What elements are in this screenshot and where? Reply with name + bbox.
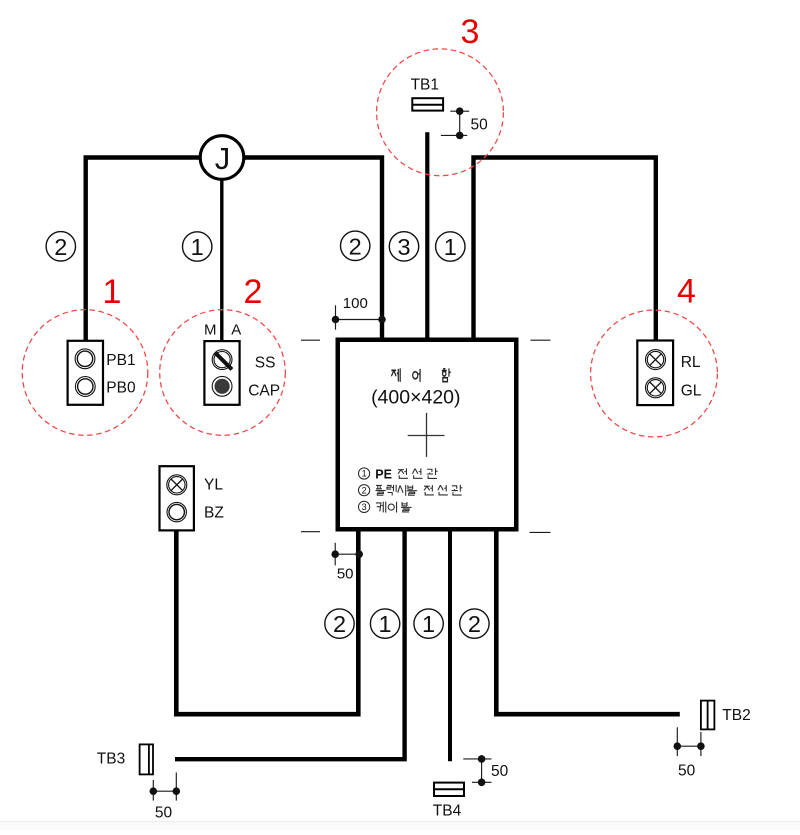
svg-text:50: 50 — [678, 763, 696, 780]
wire: J to PB station (left drop) and J to control box left conduit, label 2 — [86, 158, 382, 343]
svg-text:50: 50 — [337, 566, 354, 583]
dimension 50 (TB2 offset) — [674, 727, 705, 779]
svg-text:2: 2 — [362, 485, 367, 495]
svg-text:50: 50 — [471, 117, 489, 134]
svg-text:TB1: TB1 — [411, 77, 439, 94]
legend item 1: PE conduit — [359, 467, 438, 481]
pilot lamp RL — [646, 350, 666, 370]
svg-text:1: 1 — [379, 611, 392, 637]
conduit label 1 (RL/GL run) — [436, 232, 465, 261]
svg-text:2: 2 — [54, 234, 67, 260]
svg-text:1: 1 — [444, 234, 457, 260]
terminal block TB2 symbol — [701, 701, 715, 730]
svg-text:GL: GL — [681, 382, 702, 399]
svg-text:1: 1 — [191, 234, 204, 260]
junction box J — [200, 136, 244, 180]
svg-text:A: A — [231, 321, 241, 338]
svg-text:3: 3 — [362, 502, 367, 512]
wire: control box to TB2, label 2 — [496, 530, 680, 715]
terminal block TB4 symbol — [434, 783, 464, 796]
svg-text:50: 50 — [155, 805, 173, 822]
cable label 3 (TB1 run) — [389, 232, 418, 261]
push button PB1 — [75, 349, 95, 369]
detail circle 1 (PB station) — [22, 310, 148, 436]
dimension 50 (TB1 offset) — [441, 107, 488, 139]
terminal block TB3 symbol — [140, 744, 153, 774]
svg-text:(400×420): (400×420) — [371, 386, 460, 408]
svg-text:BZ: BZ — [204, 505, 224, 522]
svg-text:1: 1 — [362, 469, 367, 479]
wire: control box to TB3, label 1 — [175, 530, 405, 760]
svg-text:TB3: TB3 — [97, 750, 125, 767]
conduit label 2 (TB2 run) — [460, 609, 489, 638]
svg-text:TB2: TB2 — [722, 707, 750, 724]
conduit label 2 (YL/BZ run) — [325, 609, 354, 638]
corner tick top-left — [301, 339, 320, 341]
svg-text:100: 100 — [343, 295, 368, 312]
conduit label 2 (left PB run) — [46, 232, 75, 261]
control box center cross — [408, 413, 445, 457]
wire: TB1 cable drop to control box, label 3 — [425, 132, 429, 340]
dimension 100 (box top-left) — [332, 295, 386, 330]
svg-text:PB0: PB0 — [106, 379, 136, 396]
wire: control box down toward TB4, label 1 — [448, 530, 452, 762]
conduit label 2 (box left run) — [341, 231, 370, 260]
buzzer BZ — [167, 502, 186, 521]
pilot lamp YL — [167, 475, 187, 495]
svg-text:PB1: PB1 — [106, 352, 135, 369]
corner tick bottom-right — [530, 531, 551, 533]
push-button station PB1/PB0 box — [68, 341, 103, 405]
legend item 2: flexible conduit — [359, 485, 463, 496]
wire: control box to YL/BZ station, label 2 — [176, 530, 358, 715]
selector switch SS — [212, 350, 232, 370]
dimension 50 (TB4 offset) — [463, 755, 508, 786]
page footer strip — [0, 822, 800, 830]
svg-text:PE: PE — [375, 467, 392, 481]
svg-text:TB4: TB4 — [433, 802, 462, 819]
terminal block TB1 symbol — [412, 98, 443, 110]
control box 제어함 (400x420) outline — [338, 340, 517, 530]
svg-text:1: 1 — [103, 273, 122, 311]
svg-text:SS: SS — [255, 354, 276, 371]
detail circle 3 (TB1) — [377, 49, 504, 176]
detail circle 2 (SS/CAP station) — [160, 310, 286, 436]
svg-text:RL: RL — [681, 354, 701, 371]
wire: J drop to selector switch SS/CAP — [220, 158, 223, 344]
svg-text:3: 3 — [461, 13, 480, 51]
corner tick top-right — [531, 339, 551, 341]
dimension 50 (box bottom-left) — [331, 543, 363, 583]
control box title 제어함 (hand-drawn hangul) — [391, 368, 450, 382]
svg-text:50: 50 — [491, 763, 509, 780]
wire: control box to RL/GL lamp station, label 1 — [474, 158, 656, 343]
station YL/BZ box — [160, 466, 194, 530]
svg-text:J: J — [215, 141, 231, 176]
svg-text:CAP: CAP — [248, 382, 280, 399]
svg-text:2: 2 — [244, 273, 263, 311]
push button PB0 — [75, 377, 95, 397]
dimension 50 (TB3 offset) — [150, 773, 181, 822]
svg-text:2: 2 — [333, 611, 346, 637]
svg-text:3: 3 — [397, 234, 410, 260]
svg-text:2: 2 — [349, 233, 362, 259]
conduit label 1 (TB4 run) — [414, 609, 443, 638]
legend item 3: cable — [359, 501, 412, 512]
svg-text:1: 1 — [422, 611, 435, 637]
svg-text:M: M — [204, 321, 217, 338]
conduit label 1 (SS run) — [183, 232, 212, 261]
svg-text:YL: YL — [204, 477, 223, 494]
corner tick bottom-left — [301, 531, 320, 533]
svg-text:4: 4 — [677, 273, 696, 311]
pilot lamp GL — [646, 378, 666, 398]
svg-text:2: 2 — [468, 611, 481, 637]
conduit label 1 (TB3 run) — [370, 609, 399, 638]
selector station SS/CAP box — [204, 341, 239, 405]
detail circle 4 (RL/GL station) — [591, 310, 718, 437]
lamp station RL/GL box — [637, 341, 673, 406]
pilot device CAP — [212, 376, 232, 396]
